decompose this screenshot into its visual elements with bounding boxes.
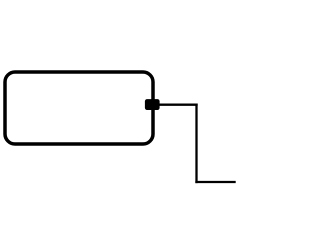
wire (vertical segment) bbox=[195, 104, 197, 184]
wire (horizontal segment from pin) bbox=[158, 104, 198, 106]
component body U1 (rounded module outline) bbox=[5, 72, 153, 144]
wire (bottom horizontal segment) bbox=[195, 181, 235, 183]
pin 1 (black terminal pad on right edge) bbox=[145, 99, 160, 110]
